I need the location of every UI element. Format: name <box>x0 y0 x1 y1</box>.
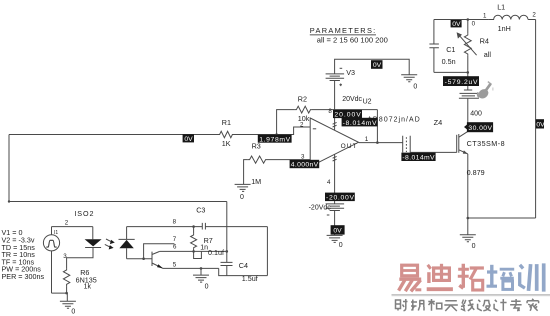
watermark small char jia <box>527 299 539 311</box>
node junction R7 top <box>192 225 195 228</box>
svg-text:8: 8 <box>173 218 177 225</box>
R4 arrow <box>460 36 477 55</box>
wire left edge vertical drop <box>8 135 10 202</box>
hand cursor <box>476 87 490 100</box>
wire feedback drop to output <box>376 110 378 143</box>
svg-text:CT35SM-8: CT35SM-8 <box>467 139 505 148</box>
svg-text:-20Vdc: -20Vdc <box>309 204 332 211</box>
wire R6 bottom <box>66 286 68 293</box>
svg-text:PER = 300ns: PER = 300ns <box>2 272 45 281</box>
svg-text:0.879: 0.879 <box>467 168 485 177</box>
svg-text:2: 2 <box>300 122 304 129</box>
svg-text:8: 8 <box>328 108 332 115</box>
wire ground stem opto-left <box>66 293 68 301</box>
watermark small char xian <box>461 300 475 311</box>
watermark char pei (blue) <box>487 265 515 290</box>
wire Z4 emitter ground stem <box>467 218 469 235</box>
probe box 0V on V3 top loop <box>371 60 383 69</box>
svg-text:0.1uf: 0.1uf <box>208 248 224 257</box>
svg-text:0V: 0V <box>536 121 545 128</box>
op-amp U2 triangle <box>310 118 358 167</box>
wire main input horizontal <box>9 134 218 136</box>
wire R2 right feedback top <box>312 109 378 111</box>
probe marker on output <box>403 136 411 153</box>
ground 1M <box>235 184 251 191</box>
transistor Z4 emitter diagonal with arrow <box>459 150 468 154</box>
wire R1 to op-amp jog <box>234 127 311 135</box>
svg-text:20Vdc: 20Vdc <box>342 96 362 103</box>
node junction base <box>142 257 145 260</box>
svg-text:Z4: Z4 <box>434 118 443 127</box>
svg-text:0V: 0V <box>452 21 461 28</box>
wire R2 left branch <box>277 110 295 135</box>
capacitor C1 <box>429 44 439 48</box>
probe box 1.978mV <box>258 135 292 143</box>
wire collector horizontal <box>160 250 227 252</box>
svg-text:1M: 1M <box>251 177 261 186</box>
wire V4 stem <box>467 72 469 89</box>
svg-text:R2: R2 <box>298 95 307 104</box>
capacitor C4 <box>221 262 233 265</box>
wire bottom right horizontal <box>468 217 536 219</box>
probe box 4.000nV <box>290 160 320 168</box>
probe box 0V at V- ground <box>331 225 345 234</box>
watermark small char zhuan <box>510 299 521 311</box>
svg-text:PARAMETERS:: PARAMETERS: <box>310 26 377 35</box>
ground V3 right <box>401 75 417 82</box>
svg-text:2: 2 <box>532 12 536 19</box>
wire Z4 collector vertical <box>467 99 469 132</box>
svg-text:4.000nV: 4.000nV <box>291 162 319 169</box>
wire emitter horizontal <box>163 267 219 269</box>
watermark divider line <box>392 294 550 296</box>
watermark small char she <box>396 299 408 311</box>
battery V4 <box>459 90 479 98</box>
svg-text:1k: 1k <box>84 283 92 290</box>
svg-text:-579.2uV: -579.2uV <box>445 79 478 86</box>
wire Z4 emitter vertical <box>467 154 469 218</box>
probe box -8.014mV upper <box>342 118 378 127</box>
probe box 0V right edge <box>536 119 544 128</box>
node junction collector-C4branch <box>226 250 229 253</box>
watermark char xun (blue) <box>520 263 544 291</box>
svg-text:5: 5 <box>173 262 177 269</box>
svg-text:0: 0 <box>472 243 476 250</box>
svg-text:0: 0 <box>472 21 476 28</box>
svg-text:C1: C1 <box>446 45 455 54</box>
svg-text:ISO2: ISO2 <box>74 209 94 218</box>
svg-text:-8.014mV: -8.014mV <box>402 155 435 162</box>
probe box 20.00V <box>333 110 362 118</box>
watermark char yi (red) <box>399 265 422 291</box>
node junction emitter-ground <box>467 217 470 220</box>
phototransistor emitter diagonal with arrow <box>152 263 163 268</box>
svg-text:0: 0 <box>71 309 75 316</box>
watermark char tuo (red) <box>458 264 484 290</box>
svg-text:1: 1 <box>483 12 487 19</box>
wire C4 vertical branch <box>226 202 228 276</box>
wire photodiode stubs <box>126 227 128 259</box>
wire LED cathode to pin3 <box>67 248 93 269</box>
wire ground stem opto-right <box>200 268 202 275</box>
wire right drop pin8 to bottom <box>266 227 268 276</box>
pulse waveform <box>46 240 56 247</box>
pulse source circle <box>43 235 59 251</box>
LED of ISO2 <box>85 239 102 246</box>
svg-text:0V: 0V <box>333 228 342 235</box>
svg-text:2: 2 <box>65 220 69 227</box>
svg-text:30.00V: 30.00V <box>468 125 492 132</box>
wire V- battery to ground <box>334 211 336 235</box>
node junction R2 branch <box>275 133 278 136</box>
svg-text:1K: 1K <box>222 139 231 148</box>
resistor R2 <box>295 106 312 113</box>
node junction feedback-output <box>376 141 379 144</box>
node junction R4 top <box>467 18 470 21</box>
watermark char di (red) <box>427 264 453 289</box>
svg-text:I1: I1 <box>54 230 58 236</box>
watermark small char she2 <box>478 300 491 311</box>
svg-text:400: 400 <box>470 110 482 117</box>
svg-text:1n: 1n <box>200 244 208 251</box>
ground opto-right <box>193 275 209 282</box>
svg-text:all = 2 15 60 100 200: all = 2 15 60 100 200 <box>317 35 388 44</box>
watermark small char ji <box>494 299 507 311</box>
resistor R3 <box>248 156 268 163</box>
wire base horizontal <box>127 258 152 260</box>
PARAMETERS underline <box>310 34 376 36</box>
svg-text:6: 6 <box>173 243 177 250</box>
svg-text:0: 0 <box>413 83 417 90</box>
node corner dot left <box>8 200 10 202</box>
probe box 0V main wire <box>183 134 194 142</box>
svg-text:7: 7 <box>173 236 177 243</box>
svg-text:U2: U2 <box>363 98 372 105</box>
battery V-supply -20Vdc <box>326 204 345 211</box>
wire long bottom horizontal to C4 branch <box>9 201 227 203</box>
capacitor C3 <box>202 223 205 230</box>
watermark small char tian <box>444 301 458 311</box>
svg-text:1nH: 1nH <box>498 24 511 33</box>
cup symbol below collector wire <box>194 251 202 258</box>
node junction R6-ground <box>65 292 68 295</box>
svg-text:3: 3 <box>63 253 67 260</box>
svg-text:-20.00V: -20.00V <box>326 195 354 202</box>
svg-text:0V: 0V <box>184 136 193 143</box>
ground Z4 emitter <box>460 235 476 242</box>
photodiode of ISO2 <box>119 238 135 240</box>
svg-text:C4: C4 <box>239 261 248 270</box>
battery V3 <box>326 74 345 81</box>
probe box -579.2uV <box>443 76 479 86</box>
svg-text:R4: R4 <box>480 36 489 45</box>
wire V3 top loop to ground <box>335 59 410 74</box>
op-amp minus sign <box>313 128 316 130</box>
wire V+ supply stub from V3 <box>334 81 336 130</box>
transistor Z4 collector diagonal <box>459 131 468 137</box>
svg-text:20.00V: 20.00V <box>334 112 361 119</box>
op-amp V- pin ticks <box>333 156 337 161</box>
svg-text:0.5n: 0.5n <box>442 57 456 66</box>
wire R3 left to ground <box>244 160 248 185</box>
svg-text:3: 3 <box>301 154 305 161</box>
wire pin7 up and over <box>144 244 175 259</box>
watermark small char he <box>428 299 442 311</box>
phototransistor bar <box>151 252 153 266</box>
ground opto-left <box>60 301 76 308</box>
transistor Z4 bars <box>456 135 458 153</box>
node junction R7 bottom <box>192 250 195 253</box>
wire bottom step <box>219 268 268 275</box>
resistor R6 <box>63 268 69 286</box>
op-amp V+ pin ticks <box>333 122 337 127</box>
svg-text:0V: 0V <box>373 62 382 69</box>
svg-text:0: 0 <box>339 242 343 249</box>
wire top right horizontal <box>434 19 536 21</box>
svg-text:C3: C3 <box>196 205 205 214</box>
light arrows <box>106 239 112 242</box>
resistor R1 <box>218 131 234 137</box>
wire probe to Z4 gate <box>410 151 456 153</box>
wire op-amp output <box>359 142 403 144</box>
inductor L1 <box>489 15 528 19</box>
wire pulse source stubs <box>52 227 67 294</box>
node junction C1-R4 <box>467 71 470 74</box>
svg-text:V3: V3 <box>346 68 355 77</box>
svg-text:1: 1 <box>365 136 369 143</box>
resistor R7 <box>191 233 197 249</box>
svg-text:L1: L1 <box>497 2 505 11</box>
ground V- supply <box>327 235 343 242</box>
probe box 0V top-right <box>451 20 462 27</box>
wire R4 stubs <box>467 20 469 73</box>
wire pin8 horizontal <box>127 226 268 228</box>
node junction emitter-ground opto <box>200 267 203 270</box>
phototransistor collector diagonal <box>152 251 160 254</box>
svg-text:0: 0 <box>240 194 244 201</box>
WATERMARK <box>392 263 550 311</box>
probe box -20.00V <box>325 193 355 202</box>
svg-text:OUT: OUT <box>341 143 358 150</box>
probe box 30.00V with arrow <box>464 124 467 130</box>
svg-text:0: 0 <box>205 283 209 290</box>
svg-text:1.978mV: 1.978mV <box>259 136 290 143</box>
svg-text:all: all <box>484 50 492 59</box>
watermark small char pin <box>411 300 424 311</box>
wire right edge vertical <box>535 20 537 219</box>
wire opto pin2 top <box>52 227 93 240</box>
svg-text:1.5uf: 1.5uf <box>242 274 258 283</box>
wire C1 branch <box>434 20 468 73</box>
svg-text:4: 4 <box>327 179 331 186</box>
svg-text:R1: R1 <box>222 118 231 127</box>
probe box -8.014mV output <box>401 153 435 161</box>
wire R7 stubs <box>193 227 195 252</box>
svg-text:-8.014mV: -8.014mV <box>343 120 377 127</box>
wire V- supply stub <box>334 155 336 204</box>
resistor R4 variable <box>464 33 471 56</box>
wire pin3 input <box>268 159 310 161</box>
